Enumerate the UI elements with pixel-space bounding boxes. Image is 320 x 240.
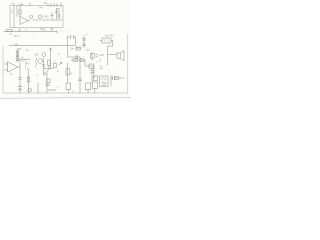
- svg-text:12: 12: [51, 27, 54, 31]
- svg-text:163: 163: [40, 27, 45, 31]
- svg-text:32b: 32b: [35, 54, 40, 57]
- svg-text:LW MW: LW MW: [48, 89, 57, 92]
- svg-text:TR1: TR1: [17, 48, 22, 51]
- svg-text:+4v: +4v: [39, 6, 44, 10]
- svg-text:*: *: [25, 30, 26, 32]
- svg-text:40: 40: [44, 1, 48, 5]
- svg-text:4n7: 4n7: [86, 49, 91, 52]
- svg-text:Fig. 2: Fig. 2: [14, 35, 21, 38]
- svg-text:C181: C181: [43, 16, 49, 19]
- svg-text:2n2 4k7: 2n2 4k7: [105, 35, 115, 38]
- svg-text:~32n: ~32n: [99, 54, 105, 57]
